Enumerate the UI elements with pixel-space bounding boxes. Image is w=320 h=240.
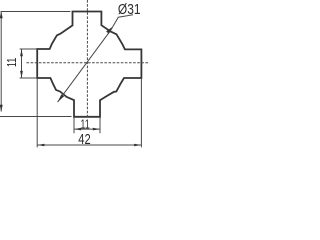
42 dim: ext left x=37.2 [36,78,38,147]
extension line top (y=11.4) [1,11,71,13]
inner left dim: ext top y=49 [20,48,38,50]
bottom 11 dim line [74,128,100,130]
part outline: cross with circular-arc corners (chorded) [37,12,141,117]
svg-text:11: 11 [4,58,19,67]
inner left arrow down [20,71,23,78]
outer left arrow down [0,105,3,112]
42 arrow right [134,144,141,147]
inner left arrow up [20,49,23,56]
bottom 11 dim: ext left x=74 [73,117,75,133]
42 dim: ext right x=141.4 [140,78,142,147]
centerline horizontal [27,62,150,64]
svg-text:11: 11 [80,116,89,131]
centerline vertical [86,0,88,117]
outer left arrow up [0,12,3,19]
svg-text:42: 42 [78,132,90,148]
42 arrow left [37,144,44,147]
svg-text:Ø31: Ø31 [118,2,141,18]
extension line bottom (y=116.5) [0,116,72,118]
bottom 11 dim: ext right x=100 [99,117,101,133]
outer left dimension line [0,12,2,112]
leader line for diameter [58,15,133,102]
leader arrow lower [58,94,65,102]
bottom 11 arrow right [93,128,100,131]
leader arrow upper [106,27,112,34]
42 dim line [37,144,141,146]
inner left dim: ext bottom y=78 [20,77,38,79]
bottom 11 arrow left [74,128,81,131]
inner left dim line [21,49,23,78]
